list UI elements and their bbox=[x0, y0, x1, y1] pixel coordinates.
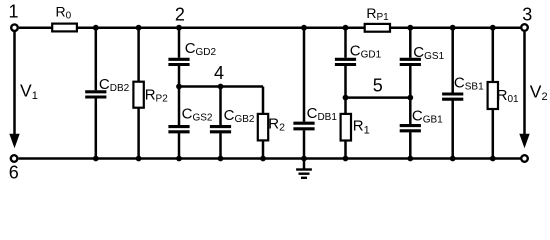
wire top rail right bbox=[390, 26, 520, 29]
wire C_GS1 upper bbox=[409, 28, 412, 58]
junction bottom RP2 bbox=[136, 156, 142, 162]
capacitor CGD1 bbox=[335, 43, 382, 65]
svg-text:1: 1 bbox=[8, 2, 18, 22]
svg-text:CDB1: CDB1 bbox=[307, 105, 338, 123]
terminal node 3 bottom bbox=[521, 155, 528, 162]
junction bottom ground bbox=[301, 156, 307, 162]
junction bottom R2 bbox=[260, 156, 266, 162]
wire R_2 upper bbox=[262, 87, 265, 114]
wire R_P2 branch upper bbox=[137, 28, 140, 82]
junction top CDB2 bbox=[93, 25, 99, 31]
wire R_01 lower bbox=[492, 109, 495, 159]
junction bottom CGB1 bbox=[407, 156, 413, 162]
ground bbox=[296, 159, 312, 178]
wire C_DB2 branch upper bbox=[95, 28, 98, 91]
wire node 5 horizontal bbox=[346, 96, 411, 99]
svg-text:5: 5 bbox=[373, 76, 383, 96]
wire top rail left bbox=[19, 26, 52, 29]
capacitor CDB2 bbox=[85, 76, 129, 97]
wire node 4 horizontal bbox=[179, 85, 263, 88]
svg-text:4: 4 bbox=[214, 63, 224, 83]
wire C_GS1 to node 5 bbox=[409, 66, 412, 98]
wire C_GD2 branch upper bbox=[178, 28, 181, 58]
V2 arrow bbox=[519, 34, 547, 149]
junction bottom CGB2 bbox=[218, 156, 224, 162]
svg-text:CGD2: CGD2 bbox=[185, 40, 217, 58]
junction top CGD1 bbox=[343, 25, 349, 31]
svg-text:V2: V2 bbox=[530, 82, 548, 104]
svg-text:CGD1: CGD1 bbox=[350, 43, 382, 61]
svg-text:RP1: RP1 bbox=[366, 5, 389, 23]
capacitor CGB1 bbox=[400, 108, 443, 131]
svg-text:3: 3 bbox=[522, 5, 532, 25]
junction bottom CGS2 bbox=[176, 156, 182, 162]
capacitor CGD2 bbox=[168, 40, 216, 65]
svg-text:2: 2 bbox=[175, 5, 185, 25]
capacitor CDB1 bbox=[293, 105, 337, 129]
resistor R01 bbox=[488, 82, 519, 109]
junction top RP2 bbox=[136, 25, 142, 31]
wire C_SB1 upper bbox=[451, 28, 454, 93]
wire C_DB1 branch upper bbox=[303, 28, 306, 122]
wire C_GB2 lower bbox=[219, 133, 222, 158]
wire C_GD1 upper bbox=[344, 28, 347, 58]
V1 arrow bbox=[9, 34, 38, 149]
wire C_GD1 to node 5 bbox=[344, 66, 347, 98]
wire R_01 upper bbox=[492, 28, 495, 82]
terminal node 6 bbox=[11, 155, 18, 162]
junction node 5 left bbox=[343, 95, 349, 101]
wire C_DB1 branch lower bbox=[303, 130, 306, 158]
wire node 1 stub down bbox=[13, 32, 16, 34]
junction bottom CSB1 bbox=[450, 156, 456, 162]
junction top R01 bbox=[490, 25, 496, 31]
svg-text:CSB1: CSB1 bbox=[454, 75, 484, 93]
svg-text:R2: R2 bbox=[268, 115, 285, 133]
wire C_GD2 to node 4 bbox=[178, 66, 181, 87]
junction top CDB1 bbox=[301, 25, 307, 31]
svg-text:6: 6 bbox=[9, 163, 19, 183]
wire bottom rail bbox=[19, 157, 521, 160]
svg-text:CGB2: CGB2 bbox=[224, 107, 255, 125]
svg-text:R0: R0 bbox=[56, 3, 72, 21]
wire R_1 lower bbox=[344, 141, 347, 159]
junction bottom R01 bbox=[490, 156, 496, 162]
wire C_GS2 upper bbox=[178, 87, 181, 126]
terminal node 3 top bbox=[521, 24, 528, 31]
wire node 3 stub down bbox=[523, 32, 526, 34]
resistor R0 bbox=[52, 3, 77, 31]
junction bottom R1 bbox=[343, 156, 349, 162]
wire C_GB1 upper bbox=[409, 98, 412, 125]
wire C_GS2 lower bbox=[178, 133, 181, 158]
capacitor CGB2 bbox=[210, 107, 255, 132]
capacitor CGS1 bbox=[400, 44, 445, 65]
svg-text:CDB2: CDB2 bbox=[99, 76, 130, 94]
svg-text:R01: R01 bbox=[497, 87, 519, 105]
wire top rail middle bbox=[77, 26, 365, 29]
junction node 4 left bbox=[176, 84, 182, 90]
capacitor CGS2 bbox=[168, 106, 212, 132]
svg-text:V1: V1 bbox=[20, 81, 38, 103]
wire C_DB2 branch lower bbox=[95, 98, 98, 158]
svg-text:CGS1: CGS1 bbox=[413, 44, 444, 62]
junction top CGS1 bbox=[407, 25, 413, 31]
svg-text:RP2: RP2 bbox=[145, 87, 169, 105]
junction top CSB1 bbox=[450, 25, 456, 31]
terminal node 1 bbox=[11, 24, 18, 31]
junction top CGD2 node 2 bbox=[176, 25, 182, 31]
svg-text:CGB1: CGB1 bbox=[412, 108, 443, 126]
junction bottom CDB2 bbox=[93, 156, 99, 162]
resistor R2 bbox=[258, 114, 285, 140]
wire R_1 upper bbox=[344, 98, 347, 114]
svg-text:R1: R1 bbox=[353, 117, 370, 136]
wire R_2 lower bbox=[262, 140, 265, 158]
wire R_P2 branch lower bbox=[137, 108, 140, 159]
junction node 4 CGB2 bbox=[218, 84, 224, 90]
capacitor CSB1 bbox=[442, 75, 484, 100]
wire C_GB1 lower bbox=[409, 132, 412, 158]
wire C_SB1 lower bbox=[451, 101, 454, 159]
resistor RP2 bbox=[133, 82, 168, 108]
resistor R1 bbox=[341, 114, 370, 141]
svg-text:CGS2: CGS2 bbox=[182, 106, 213, 124]
wire C_GB2 upper bbox=[219, 87, 222, 126]
junction node 5 right bbox=[407, 95, 413, 101]
resistor RP1 bbox=[365, 5, 390, 32]
